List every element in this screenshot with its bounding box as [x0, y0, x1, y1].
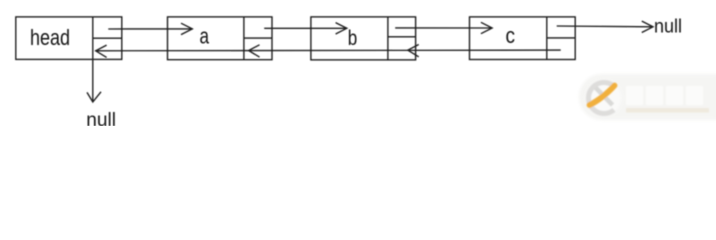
head node box: [16, 17, 122, 60]
head pointer-column divider: [92, 17, 94, 60]
node a column mid divider: [244, 37, 272, 39]
svg-text:head: head: [30, 25, 70, 50]
wire c.next to null: [557, 25, 653, 28]
svg-text:c: c: [506, 23, 516, 48]
svg-text:a: a: [200, 24, 210, 49]
watermark logo white glow: [587, 81, 622, 116]
svg-text:null: null: [86, 109, 116, 126]
arrowhead into c: [481, 22, 492, 33]
watermark logo gray slash: [596, 88, 613, 106]
watermark logo yellow swoosh: [590, 86, 615, 106]
prev chain wire: [96, 49, 561, 52]
arrowhead at right null: [642, 21, 653, 32]
node a box: [168, 17, 273, 60]
svg-text:b: b: [348, 27, 358, 50]
head column mid divider: [93, 37, 122, 39]
wire a.next to b: [264, 27, 347, 29]
watermark latin caption: [626, 108, 709, 113]
wire b.next to c: [395, 27, 492, 29]
node c pointer-column divider: [546, 17, 548, 60]
node b box: [311, 17, 416, 60]
watermark logo ring C: [588, 82, 613, 113]
arrowhead into head prev cell: [96, 45, 107, 57]
svg-text:null: null: [654, 17, 682, 38]
arrowhead into b: [336, 23, 347, 34]
wire head.prev down to null: [92, 59, 94, 102]
watermark chinese text glyph blocks: [626, 86, 703, 105]
arrowhead into a prev cell: [249, 45, 260, 57]
arrowhead down: [87, 92, 101, 102]
node a pointer-column divider: [243, 17, 245, 60]
watermark chip background: [579, 74, 716, 120]
arrowhead into a: [181, 23, 192, 34]
node c column mid divider: [547, 37, 575, 39]
wire head.next to a: [108, 28, 192, 30]
node b pointer-column divider: [387, 17, 389, 60]
node c box: [470, 17, 576, 60]
arrowhead into b prev cell: [408, 45, 419, 57]
node b column mid divider: [388, 36, 416, 38]
